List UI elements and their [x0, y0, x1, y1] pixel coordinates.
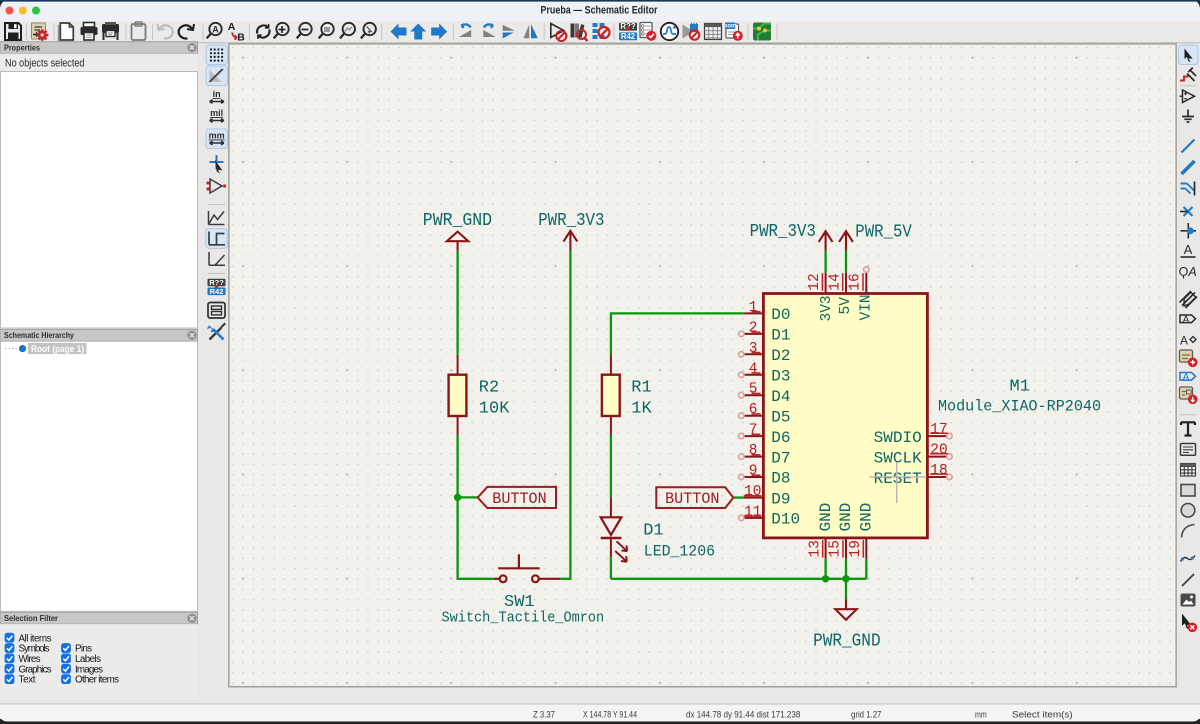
svg-text:19: 19: [848, 540, 864, 557]
resistor R2: [449, 355, 467, 435]
separator: [248, 24, 250, 41]
svg-text:D1: D1: [771, 327, 790, 345]
LED D1: [601, 497, 628, 561]
svg-text:bom: bom: [724, 24, 737, 30]
canvas background: [230, 45, 1176, 686]
tool junction: [1181, 223, 1197, 239]
svg-text:Other items: Other items: [75, 675, 119, 686]
wire R1 to LED: [610, 435, 612, 497]
svg-text:3: 3: [749, 341, 758, 357]
junction node BUTTON: [454, 494, 461, 501]
separator: [125, 24, 127, 41]
left toolbar: [206, 45, 228, 340]
icon new sheet: [59, 23, 74, 42]
wire to PWR_GND bottom: [845, 579, 847, 600]
separator: [202, 24, 204, 41]
separator: [208, 204, 225, 206]
tool place wire: [1182, 140, 1195, 153]
svg-text:mil: mil: [210, 108, 223, 118]
svg-text:PWR_GND: PWR_GND: [813, 631, 881, 651]
icon simulator: [661, 23, 678, 40]
separator: [452, 24, 454, 41]
title bar: [0, 0, 1200, 21]
svg-text:D8: D8: [771, 470, 790, 488]
icon print: [81, 23, 98, 41]
tool hierarchical label: [1180, 291, 1198, 308]
svg-text:PWR_GND: PWR_GND: [423, 211, 492, 231]
svg-text:VIN: VIN: [858, 294, 874, 320]
icon mirror horizontal: [503, 25, 515, 39]
icon find: [207, 23, 222, 39]
top pin numbers rotated: [807, 273, 864, 290]
svg-text:Select item(s): Select item(s): [1012, 709, 1073, 720]
separator: [1180, 414, 1196, 416]
junction GND 2: [842, 575, 849, 582]
svg-text:10: 10: [744, 484, 761, 500]
svg-text:B: B: [237, 32, 245, 44]
svg-text:12: 12: [807, 273, 823, 290]
power symbol PWR_GND (bottom): [835, 599, 856, 619]
svg-text:D4: D4: [771, 388, 790, 406]
svg-text:R42: R42: [621, 32, 636, 41]
unconnected pin circle VIN: [864, 267, 869, 272]
svg-text:Root (page 1): Root (page 1): [31, 344, 84, 354]
tool place text: [1181, 422, 1195, 435]
svg-text:SWDIO: SWDIO: [874, 429, 922, 447]
svg-text:1K: 1K: [631, 400, 652, 419]
right pin names: [874, 429, 922, 488]
svg-text:Ϙ: Ϙ: [1179, 265, 1189, 279]
svg-text:GND: GND: [858, 503, 876, 532]
svg-text:X 144.78 Y 91.44: X 144.78 Y 91.44: [583, 709, 637, 720]
svg-text:A: A: [1183, 372, 1190, 383]
separator: [543, 24, 545, 41]
svg-text:mm: mm: [209, 131, 225, 141]
hierarchy content area: [1, 341, 198, 611]
svg-text:5V: 5V: [838, 297, 854, 315]
wire switch to PWR_3V3 column: [560, 251, 570, 579]
tool draw circle: [1181, 504, 1195, 518]
svg-text:D0: D0: [771, 306, 790, 324]
selection filter close button: [187, 614, 196, 623]
tool no connect: [1184, 207, 1193, 216]
svg-text:GND: GND: [837, 503, 855, 532]
separator: [747, 24, 749, 41]
global label BUTTON (left): [478, 487, 556, 508]
tool 45 deg wires: [209, 252, 225, 265]
icon edit symbol blocked: [551, 24, 567, 42]
tool place image: [1181, 594, 1196, 607]
svg-text:Properties: Properties: [4, 42, 40, 52]
tool highlight net: [1180, 77, 1189, 81]
icon symbol fields table: [705, 24, 722, 40]
cursor crosshair: [869, 462, 927, 503]
pin numbers 1-11: [744, 300, 761, 521]
svg-text:R1: R1: [631, 379, 651, 398]
svg-text:A: A: [228, 21, 236, 33]
svg-text:Text: Text: [19, 675, 36, 686]
traffic light zoom: [32, 7, 40, 15]
wire BUTTON to D9: [733, 496, 744, 498]
svg-text:14: 14: [827, 273, 843, 290]
svg-text:15: 15: [828, 540, 844, 557]
svg-text:D10: D10: [771, 511, 800, 529]
svg-text:Switch_Tactile_Omron: Switch_Tactile_Omron: [442, 611, 605, 627]
module bottom pins 13 15 19: [826, 538, 867, 559]
tool 90 deg wires (selected): [206, 229, 228, 249]
tool place table: [1181, 464, 1196, 477]
left properties panel: [0, 42, 198, 700]
separator: [53, 24, 55, 41]
power symbol PWR_GND (top left): [447, 232, 468, 251]
svg-text:Graphics: Graphics: [19, 664, 52, 675]
icon nav forward: [431, 24, 447, 40]
svg-text:3V3: 3V3: [819, 295, 835, 321]
bottom pin numbers rotated: [807, 540, 864, 557]
svg-text:A: A: [1184, 242, 1193, 257]
svg-text:dx 144.78 dy 91.44 dist 171.: dx 144.78 dy 91.44 dist 171.238: [686, 709, 800, 720]
tool draw arc: [1182, 525, 1195, 538]
tool units mm (selected): [206, 129, 228, 149]
properties close button: [187, 43, 196, 52]
wire D0 net: [611, 313, 744, 354]
tool place sheet pin: [1180, 373, 1196, 381]
tool place bus: [1182, 161, 1195, 174]
module top pins 12 14 16: [826, 273, 867, 294]
svg-text:BUTTON: BUTTON: [665, 490, 719, 508]
icon zoom to fit: [319, 23, 334, 39]
svg-text:GND: GND: [817, 503, 835, 532]
separator: [26, 24, 28, 41]
unconnected pin circles left: [739, 331, 744, 520]
tool preferences: [207, 323, 226, 340]
separator: [381, 24, 383, 41]
pin names D0-D10: [771, 306, 800, 528]
icon find and replace: [228, 21, 246, 44]
icon nav up: [410, 24, 426, 40]
svg-text:M1: M1: [1010, 378, 1030, 397]
tool wire to bus entry: [1181, 184, 1195, 194]
icon paste: [132, 22, 146, 40]
tool place hierarchical sheet: [1180, 350, 1193, 362]
separator: [1180, 85, 1196, 87]
resistor R1: [602, 355, 620, 435]
tool global label: [1180, 315, 1196, 323]
svg-text:18: 18: [930, 463, 947, 479]
svg-text:No objects selected: No objects selected: [5, 58, 85, 70]
svg-text:A: A: [1180, 334, 1188, 348]
tool grid-visibility (selected): [206, 45, 228, 65]
icon footprint blocked: [593, 23, 610, 39]
checkbox graphics: [5, 664, 15, 674]
checkbox all items: [5, 633, 15, 643]
wire PWR_GND to R2: [456, 251, 458, 355]
icon annotate: [619, 22, 637, 41]
icon zoom in: [274, 23, 289, 39]
svg-text:13: 13: [807, 540, 823, 557]
svg-text:PWR_3V3: PWR_3V3: [750, 222, 816, 242]
svg-text:10K: 10K: [479, 400, 510, 419]
tool sheet list: [208, 303, 225, 319]
icon plot: [102, 22, 119, 40]
svg-text:mm: mm: [975, 709, 987, 720]
icon zoom to selection: [361, 23, 376, 39]
svg-text:PWR_5V: PWR_5V: [855, 223, 912, 243]
checkbox text: [5, 674, 15, 684]
icon nav back: [391, 24, 407, 40]
switch SW1: [494, 554, 560, 582]
tool full crosshair cursor: [210, 155, 224, 169]
svg-text:Prueba — Schematic Editor: Prueba — Schematic Editor: [541, 5, 659, 17]
icon rotate cw: [483, 24, 496, 37]
module left pins D0-D10: [744, 313, 763, 518]
unconnected pin circles right: [947, 433, 952, 479]
canvas frame: [229, 44, 1176, 687]
hierarchy tree dotted line: [5, 348, 18, 350]
svg-text:D3: D3: [771, 368, 790, 386]
status bar: [0, 704, 1200, 724]
svg-text:Symbols: Symbols: [19, 644, 50, 655]
traffic light close: [6, 7, 14, 15]
icon refresh: [257, 24, 270, 39]
tool place text box: [1181, 444, 1196, 456]
tool select cursor (selected): [1179, 45, 1199, 65]
icon mirror vertical: [524, 24, 538, 38]
svg-text:D7: D7: [771, 449, 790, 467]
global label BUTTON (right): [656, 487, 733, 508]
selection filter header: [0, 612, 198, 624]
svg-text:D1: D1: [643, 522, 663, 541]
svg-text:grid 1.27: grid 1.27: [851, 709, 881, 720]
icon browse libraries: [571, 24, 588, 42]
icon zoom to objects: [340, 23, 355, 39]
hierarchy root selected row: [28, 343, 87, 354]
svg-text:4: 4: [749, 361, 758, 377]
svg-text:D5: D5: [771, 408, 790, 426]
icon zoom out: [297, 23, 312, 39]
tool place symbol: [1183, 90, 1195, 103]
tool grid-override (selected): [206, 66, 228, 86]
separator: [613, 24, 615, 41]
checkbox other items: [61, 674, 71, 684]
checkbox wires: [5, 654, 15, 664]
svg-text:17: 17: [930, 422, 947, 438]
hierarchy panel header: [0, 329, 198, 341]
svg-text:PWR_3V3: PWR_3V3: [538, 211, 604, 231]
icon export BOM: [724, 23, 743, 41]
power symbol PWR_5V: [839, 231, 853, 250]
icon redo: [179, 24, 194, 39]
svg-text:Schematic Hierarchy: Schematic Hierarchy: [4, 330, 74, 340]
checkbox images: [61, 664, 71, 674]
tool free angle wires: [209, 211, 225, 225]
tool draw line: [1182, 574, 1194, 586]
svg-text:16: 16: [848, 273, 864, 290]
properties content area: [1, 72, 198, 329]
tool interactive delete: [1182, 614, 1192, 630]
svg-text:Pins: Pins: [75, 644, 92, 655]
svg-text:Z 3.37: Z 3.37: [533, 709, 555, 720]
junction GND 1: [822, 575, 829, 582]
icon electrical rules check: [640, 23, 656, 41]
tool place power port: [1182, 110, 1194, 123]
icon rotate ccw: [459, 24, 472, 37]
svg-text:RESET: RESET: [874, 470, 922, 488]
svg-text:SWCLK: SWCLK: [874, 449, 922, 467]
wire R2 to switch: [458, 435, 494, 579]
module M1 body: [763, 294, 927, 538]
checkbox labels: [61, 654, 71, 664]
svg-text:2: 2: [749, 320, 758, 336]
svg-text:R2: R2: [479, 379, 499, 398]
properties no-selection row: [1, 54, 198, 72]
wire junction to label: [458, 496, 478, 498]
svg-text:D9: D9: [771, 490, 790, 508]
icon assign footprints: [683, 23, 700, 40]
wires to power arrows: [824, 251, 826, 273]
svg-text:Module_XIAO-RP2040: Module_XIAO-RP2040: [938, 397, 1101, 415]
svg-text:8: 8: [749, 443, 758, 459]
svg-text:5: 5: [749, 382, 758, 398]
power symbol PWR_3V3 (module): [819, 231, 833, 250]
svg-text:6: 6: [749, 402, 758, 418]
separator: [776, 24, 778, 41]
svg-text:9: 9: [749, 464, 758, 480]
checkbox symbols: [5, 643, 15, 653]
tool hidden pins: [210, 179, 222, 193]
separator: [152, 24, 154, 41]
tool annotate R42: [208, 279, 226, 287]
svg-text:D6: D6: [771, 429, 790, 447]
right pin numbers: [930, 422, 947, 479]
tool draw bezier: [1181, 556, 1196, 562]
tool draw rectangle: [1181, 485, 1195, 497]
svg-text:7: 7: [749, 423, 758, 439]
icon open pcb editor: [753, 23, 771, 41]
module right pins 17 20 18: [927, 436, 946, 477]
svg-text:Selection Filter: Selection Filter: [4, 613, 59, 623]
svg-text:11: 11: [744, 504, 761, 520]
icon undo (disabled): [158, 24, 173, 39]
wire LED to GND rail: [610, 557, 612, 579]
svg-text:A: A: [1183, 314, 1190, 325]
svg-text:in: in: [213, 89, 221, 99]
tool import sheet pin: [1180, 387, 1193, 399]
hierarchy close button: [187, 331, 196, 340]
icon schematic setup: [32, 23, 49, 41]
separator: [208, 272, 225, 274]
wire GND pins to rail: [611, 559, 866, 579]
svg-text:BUTTON: BUTTON: [492, 490, 546, 508]
pin number underlines: [744, 273, 948, 557]
svg-text:LED_1206: LED_1206: [644, 542, 715, 560]
selection filter body: [1, 624, 198, 700]
properties panel header: [0, 42, 198, 54]
svg-text:Images: Images: [75, 664, 103, 675]
icon save: [5, 23, 21, 40]
checkbox pins: [61, 643, 71, 653]
svg-text:D2: D2: [771, 347, 790, 365]
power symbol PWR_3V3 (left): [564, 231, 578, 251]
svg-text:A: A: [1187, 265, 1196, 279]
svg-text:SW1: SW1: [504, 593, 535, 612]
svg-text:1: 1: [749, 300, 758, 316]
top pin names rotated: [819, 294, 874, 321]
right toolbar: [1179, 45, 1199, 632]
hierarchy root node icon: [19, 345, 26, 352]
bottom pin names GND rotated: [817, 503, 876, 532]
top toolbar background: [0, 21, 1200, 43]
traffic light minimize: [19, 7, 27, 15]
svg-text:20: 20: [930, 443, 947, 459]
svg-text:A: A: [212, 24, 219, 34]
